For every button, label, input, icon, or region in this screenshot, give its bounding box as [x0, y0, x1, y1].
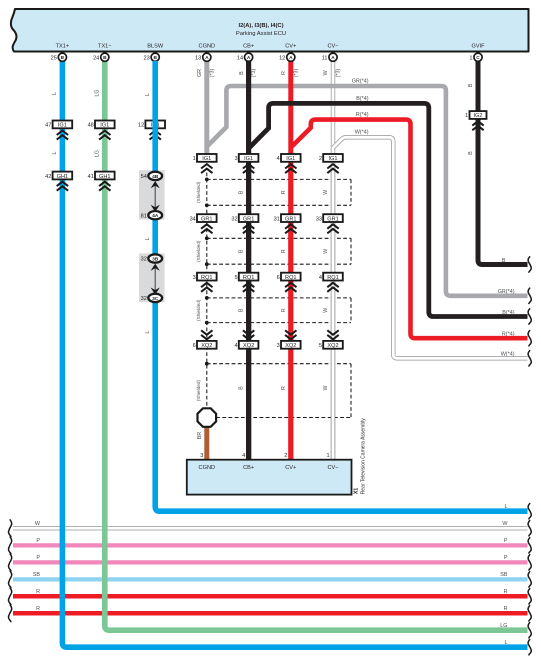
svg-text:GR: GR	[197, 69, 203, 77]
wire BR from shield octagon to camera CGND	[204, 424, 209, 461]
svg-text:BR: BR	[197, 432, 203, 439]
svg-text:B: B	[239, 308, 245, 312]
svg-text:CV+: CV+	[285, 43, 296, 49]
oval terminal 4A	[148, 211, 162, 219]
wire W over shield boxes	[331, 165, 335, 461]
oval terminal 3C	[148, 294, 162, 302]
svg-text:4: 4	[242, 453, 245, 459]
continuation squiggle left R	[9, 588, 12, 605]
svg-text:GR(*4): GR(*4)	[352, 78, 369, 84]
svg-text:IG1: IG1	[58, 123, 67, 129]
connector GH1 pin 41	[95, 172, 115, 180]
svg-text:RQ1: RQ1	[327, 275, 339, 281]
oval terminal 3B	[148, 254, 162, 262]
oval terminal 4B	[148, 172, 162, 180]
svg-text:2: 2	[319, 156, 322, 162]
svg-text:54: 54	[141, 174, 147, 180]
junction line inside 3B/3C block	[154, 266, 156, 291]
pin 12 circle (A) on ECU	[287, 53, 295, 61]
svg-text:CGND: CGND	[199, 465, 215, 471]
svg-text:XQ2: XQ2	[201, 343, 212, 349]
shield junction dot at y=179.4	[205, 178, 209, 182]
wire L BLSW segment terminal 4A to 3B	[152, 215, 158, 258]
shield ground octagon	[198, 408, 217, 427]
svg-text:GH1: GH1	[57, 174, 69, 180]
svg-text:12: 12	[279, 55, 285, 61]
connector IG1 pin 47	[53, 121, 73, 129]
svg-text:1: 1	[469, 55, 472, 61]
svg-text:A: A	[289, 55, 293, 61]
svg-text:B: B	[239, 386, 245, 390]
chevron arrows below GR1 x=333.0	[327, 224, 338, 233]
continuation squiggle right R	[528, 606, 531, 621]
continuation squiggle left P	[9, 554, 12, 571]
svg-text:A: A	[247, 55, 251, 61]
shield box 2 right edge	[350, 238, 352, 264]
continuation squiggle W(*4) exit	[528, 351, 531, 366]
svg-text:LG: LG	[95, 90, 101, 97]
svg-text:L: L	[145, 93, 151, 96]
wire P horizontal 2	[13, 560, 528, 564]
svg-text:(Shielded): (Shielded)	[196, 240, 201, 262]
chevron arrows below IG1 pin 12	[150, 131, 161, 140]
svg-text:CV+: CV+	[285, 465, 296, 471]
arrow down (female half 4A)	[151, 205, 160, 212]
chevron arrows below IG1 pin 47	[57, 131, 68, 140]
pin 24 circle (B) on ECU	[101, 53, 109, 61]
shield box 2 bottom edge	[207, 263, 351, 265]
svg-text:24: 24	[93, 55, 99, 61]
chevron arrows below IG1 x=206.8	[201, 164, 212, 173]
svg-text:12: 12	[138, 123, 144, 129]
wire R(*4) branch to right edge	[291, 120, 528, 339]
svg-text:3: 3	[193, 275, 196, 281]
svg-text:R(*4): R(*4)	[502, 332, 515, 338]
svg-text:B: B	[239, 249, 245, 253]
wire R over shield boxes	[288, 165, 293, 461]
svg-text:6: 6	[193, 343, 196, 349]
svg-text:W: W	[323, 190, 329, 195]
connector IG1 pin 1	[197, 154, 217, 162]
wire L BLSW segment terminal 3C to bottom bus	[155, 298, 527, 511]
svg-text:W(*4): W(*4)	[355, 129, 369, 135]
wire GR from CGND pin 13 to connector IG1 pin 1	[204, 61, 209, 156]
svg-text:P: P	[36, 555, 40, 561]
svg-text:GR1: GR1	[201, 216, 213, 222]
svg-text:33: 33	[316, 216, 322, 222]
continuation squiggle left W	[9, 520, 12, 537]
connector IG2 pin 1	[470, 111, 487, 119]
chevron arrows below RQ1 x=206.8	[201, 283, 212, 292]
svg-text:P: P	[504, 538, 508, 544]
svg-text:3C: 3C	[152, 296, 159, 302]
svg-text:GR1: GR1	[327, 216, 339, 222]
svg-text:C: C	[476, 55, 480, 61]
continuation squiggle right R	[528, 589, 531, 604]
pin 1 circle (C) on ECU	[474, 53, 482, 61]
wire GR(*4) branch to right edge	[207, 86, 528, 296]
connector RQ1 pin 4	[323, 273, 343, 281]
svg-text:XQ2: XQ2	[285, 343, 296, 349]
svg-text:GVIF: GVIF	[471, 43, 485, 49]
shield box 4 right edge	[350, 364, 352, 418]
svg-text:XQ2: XQ2	[327, 343, 338, 349]
continuation squiggle right P	[528, 538, 531, 553]
svg-text:IG1: IG1	[100, 123, 109, 129]
svg-text:L: L	[52, 151, 58, 154]
svg-text:GR1: GR1	[285, 216, 297, 222]
svg-text:4: 4	[319, 275, 322, 281]
svg-text:3: 3	[234, 156, 237, 162]
svg-text:1: 1	[465, 113, 468, 119]
connector XQ2 pin 3	[281, 341, 301, 349]
shield box 1 bottom edge	[207, 204, 351, 206]
svg-text:L: L	[145, 237, 151, 240]
svg-text:GH1: GH1	[99, 174, 111, 180]
connector RQ1 pin 5	[239, 273, 259, 281]
shield box 2 top edge	[207, 237, 351, 239]
svg-text:47: 47	[45, 123, 51, 129]
svg-text:23: 23	[143, 55, 149, 61]
svg-text:IG1: IG1	[244, 156, 253, 162]
wire B over shield boxes	[246, 165, 251, 461]
svg-text:LG: LG	[500, 623, 507, 629]
chevron arrows below GR1 x=248.6	[243, 224, 254, 233]
svg-text:6: 6	[277, 275, 280, 281]
svg-text:LG: LG	[95, 150, 101, 157]
svg-text:(*3): (*3)	[336, 68, 342, 77]
svg-text:41: 41	[88, 174, 94, 180]
svg-text:R: R	[281, 308, 287, 312]
svg-text:5: 5	[234, 275, 237, 281]
in-line connector block 3B/3C (gray background)	[139, 253, 165, 302]
connector IG1 pin 3	[239, 154, 259, 162]
svg-text:1: 1	[326, 453, 329, 459]
svg-text:(*3): (*3)	[209, 68, 215, 77]
svg-text:4B: 4B	[152, 174, 159, 180]
svg-text:I2(A), I3(B), I4(C): I2(A), I3(B), I4(C)	[238, 23, 283, 29]
wire W horizontal (bottom bus)	[13, 526, 528, 530]
svg-text:13: 13	[195, 55, 201, 61]
chevron arrows below RQ1 x=248.6	[243, 283, 254, 292]
wire L from TX1+ pin 25 to bottom bus	[62, 61, 527, 647]
ECU connector banner I2/I3/I4	[11, 9, 529, 52]
svg-text:32: 32	[231, 216, 237, 222]
wire B from GVIF pin 1 to right edge	[478, 61, 528, 265]
svg-text:B(*4): B(*4)	[502, 310, 514, 316]
svg-text:W(*4): W(*4)	[501, 352, 515, 358]
pin 13 circle (A) on ECU	[203, 53, 211, 61]
svg-text:11: 11	[322, 55, 328, 61]
wire L BLSW segment pin 23 to terminal 4B	[152, 61, 158, 176]
continuation squiggle left SB	[9, 571, 12, 588]
svg-text:CV−: CV−	[327, 43, 338, 49]
svg-text:CGND: CGND	[199, 43, 215, 49]
chevron arrows below RQ1 x=333.0	[327, 283, 338, 292]
svg-text:R: R	[281, 190, 287, 194]
svg-text:B: B	[468, 83, 474, 87]
chevron arrows below GH1 pin 42	[57, 182, 68, 191]
svg-text:R: R	[504, 606, 508, 612]
chevron arrows below IG1 x=333.0	[327, 164, 338, 173]
shield drain dashed line (left, through connectors)	[206, 173, 208, 409]
wire R horizontal 1	[13, 594, 528, 599]
svg-text:4: 4	[234, 343, 237, 349]
svg-text:P: P	[504, 555, 508, 561]
svg-text:L: L	[505, 504, 508, 510]
chevron arrows above XQ2 x=333.0	[327, 330, 338, 339]
svg-text:W: W	[323, 308, 329, 313]
svg-text:48: 48	[88, 123, 94, 129]
svg-text:B: B	[103, 55, 107, 61]
wire B(*4) branch to right edge	[249, 103, 528, 316]
wire B from CB+ pin 14 to camera CB+	[246, 61, 251, 461]
svg-text:RQ1: RQ1	[243, 275, 255, 281]
connector IG1 pin 12	[145, 121, 165, 129]
shield junction dot at y=205.3	[205, 203, 209, 207]
connector GR1 pin 34	[197, 214, 217, 222]
svg-text:A: A	[331, 55, 335, 61]
svg-text:R: R	[504, 589, 508, 595]
shield junction dot at y=363.7	[205, 362, 209, 366]
svg-text:(Shielded): (Shielded)	[196, 181, 201, 203]
svg-text:IG1: IG1	[328, 156, 337, 162]
wire SB horizontal	[13, 577, 528, 581]
shield box 1 right edge	[350, 179, 352, 205]
svg-text:SB: SB	[500, 572, 508, 578]
pin 11 circle (A) on ECU	[329, 53, 337, 61]
connector XQ2 pin 4	[239, 341, 259, 349]
svg-text:B: B	[502, 258, 506, 264]
continuation squiggle B(*4) exit	[528, 309, 531, 324]
svg-text:32: 32	[141, 296, 147, 302]
shield box 3 bottom edge	[207, 322, 351, 324]
svg-text:42: 42	[45, 174, 51, 180]
svg-text:(Shielded): (Shielded)	[196, 299, 201, 321]
svg-text:R: R	[36, 606, 40, 612]
svg-text:GR(*4): GR(*4)	[498, 289, 515, 295]
svg-text:R: R	[281, 249, 287, 253]
svg-text:SB: SB	[33, 572, 41, 578]
svg-text:25: 25	[51, 55, 57, 61]
continuation squiggle right L	[528, 504, 531, 519]
wire W from CV- pin 11 to camera CV-	[331, 61, 335, 461]
pin 25 circle (B) on ECU	[58, 53, 66, 61]
chevron arrows below IG1 pin 48	[99, 131, 110, 140]
svg-text:L: L	[145, 330, 151, 333]
wire LG from TX1- pin 24 to bottom bus	[105, 61, 528, 630]
svg-text:TX1−: TX1−	[98, 43, 112, 49]
svg-text:3: 3	[277, 343, 280, 349]
svg-text:CV−: CV−	[327, 465, 338, 471]
svg-text:L: L	[52, 92, 58, 95]
connector GR1 pin 31	[281, 214, 301, 222]
svg-text:W: W	[323, 249, 329, 254]
svg-text:(*3): (*3)	[293, 68, 299, 77]
svg-text:X1: X1	[354, 488, 360, 495]
connector RQ1 pin 6	[281, 273, 301, 281]
svg-text:TX1+: TX1+	[56, 43, 70, 49]
arrow up (male half 4B)	[151, 181, 160, 188]
chevron arrows below IG1 x=248.6	[243, 164, 254, 173]
continuation squiggle right SB	[528, 572, 531, 587]
continuation squiggle right W	[528, 521, 531, 536]
shield box 1 top edge	[207, 178, 351, 180]
chevron arrows below IG2	[472, 121, 483, 130]
connector XQ2 pin 6	[197, 341, 217, 349]
shield box 3 right edge	[350, 298, 352, 323]
continuation squiggle right LG	[528, 623, 531, 638]
in-line connector block 4B/4A (gray)	[139, 170, 165, 219]
svg-text:IG1: IG1	[286, 156, 295, 162]
continuation squiggle right L	[528, 640, 531, 655]
svg-text:31: 31	[274, 216, 280, 222]
arrow down (female half 3C)	[151, 288, 160, 295]
svg-text:B: B	[468, 151, 474, 155]
chevron arrows above XQ2 x=290.8	[285, 330, 296, 339]
svg-text:RQ1: RQ1	[285, 275, 297, 281]
continuation squiggle R(*4) exit	[528, 331, 531, 346]
svg-text:B: B	[239, 71, 245, 75]
svg-text:32: 32	[141, 257, 147, 263]
svg-text:BLSW: BLSW	[147, 43, 164, 49]
shield box 4 top edge	[207, 363, 351, 365]
svg-text:A: A	[205, 55, 209, 61]
connector RQ1 pin 3	[197, 273, 217, 281]
connector GH1 pin 42	[53, 172, 73, 180]
wire W(*4) branch to right edge	[333, 137, 528, 358]
svg-text:(Shielded): (Shielded)	[196, 379, 201, 401]
connector IG1 pin 48	[95, 121, 115, 129]
svg-text:4: 4	[277, 156, 280, 162]
svg-text:P: P	[36, 538, 40, 544]
connector IG1 pin 4	[281, 154, 301, 162]
svg-text:CB+: CB+	[243, 465, 254, 471]
shield junction dot at y=322.6	[205, 321, 209, 325]
continuation squiggle GR exit	[528, 288, 531, 303]
wire P horizontal 1	[13, 543, 528, 547]
connector XQ2 pin 5	[323, 341, 343, 349]
svg-text:Rear Television Camera Assembl: Rear Television Camera Assembly	[361, 418, 367, 495]
connector GR1 pin 32	[239, 214, 259, 222]
wire R from CV+ pin 12 to camera CV+	[288, 61, 293, 461]
connector IG1 pin 2	[323, 154, 343, 162]
svg-text:B: B	[153, 55, 157, 61]
chevron arrows above XQ2 x=206.8	[201, 330, 212, 339]
continuation squiggle left R	[9, 605, 12, 622]
pin 23 circle (B) on ECU	[151, 53, 159, 61]
shield junction dot at y=297.9	[205, 296, 209, 300]
svg-text:B: B	[61, 55, 65, 61]
svg-text:GR1: GR1	[243, 216, 255, 222]
svg-text:14: 14	[237, 55, 243, 61]
svg-text:R: R	[36, 589, 40, 595]
svg-text:2: 2	[284, 453, 287, 459]
shield junction dot at y=238.3	[205, 236, 209, 240]
svg-text:B: B	[239, 190, 245, 194]
chevron arrows below GR1 x=206.8	[201, 224, 212, 233]
camera assembly box X1	[187, 460, 352, 495]
continuation squiggle right P	[528, 555, 531, 570]
svg-text:4A: 4A	[152, 213, 159, 219]
chevron arrows below GR1 x=290.8	[285, 224, 296, 233]
shield box 4 bottom edge	[216, 417, 351, 419]
svg-text:R: R	[281, 386, 287, 390]
svg-text:(*3): (*3)	[251, 68, 257, 77]
svg-text:IG2: IG2	[473, 113, 482, 119]
svg-text:IG1: IG1	[202, 156, 211, 162]
wire R horizontal 2	[13, 611, 528, 616]
continuation squiggle B exit	[528, 257, 531, 272]
arrow up (male half 3B)	[151, 264, 160, 271]
chevron arrows below IG1 x=290.8	[285, 164, 296, 173]
continuation squiggle left P	[9, 537, 12, 554]
svg-text:L: L	[505, 640, 508, 646]
svg-text:XQ2: XQ2	[243, 343, 254, 349]
chevron arrows above XQ2 x=248.6	[243, 330, 254, 339]
shield junction dot at y=264.2	[205, 262, 209, 266]
svg-text:CB+: CB+	[243, 43, 254, 49]
svg-text:3: 3	[200, 453, 203, 459]
svg-text:81: 81	[141, 213, 147, 219]
pin 14 circle (A) on ECU	[245, 53, 253, 61]
connector GR1 pin 33	[323, 214, 343, 222]
svg-text:1: 1	[193, 156, 196, 162]
svg-text:W: W	[323, 385, 329, 390]
svg-text:B(*4): B(*4)	[356, 96, 368, 102]
svg-text:R: R	[281, 71, 287, 75]
svg-text:3B: 3B	[152, 256, 159, 262]
chevron arrows below GH1 pin 41	[99, 182, 110, 191]
svg-text:RQ1: RQ1	[201, 275, 213, 281]
junction line inside 4B/4A block	[154, 184, 156, 208]
svg-text:Parking Assist ECU: Parking Assist ECU	[236, 31, 286, 37]
svg-text:5: 5	[319, 343, 322, 349]
chevron arrows below RQ1 x=290.8	[285, 283, 296, 292]
svg-text:R(*4): R(*4)	[356, 112, 369, 118]
shield box 3 top edge	[207, 297, 351, 299]
svg-text:34: 34	[190, 216, 196, 222]
